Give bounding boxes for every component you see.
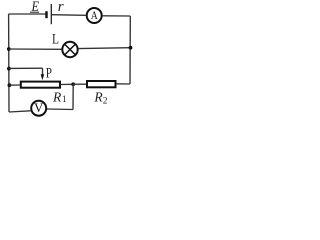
- slider arrowhead P: [41, 74, 45, 80]
- wire ammeter to top-right corner: [103, 15, 131, 17]
- wire right vertical: [129, 16, 131, 84]
- wire lamp branch left: [9, 48, 62, 50]
- label E underline: [30, 11, 39, 13]
- wire junction to R2: [73, 83, 87, 85]
- wire slider arrow shaft: [42, 68, 44, 75]
- voltmeter circle: [31, 101, 46, 116]
- wire to R1 left end: [9, 84, 20, 86]
- lamp cross stroke 1: [65, 44, 76, 55]
- lamp cross stroke 2: [65, 44, 76, 55]
- node junction left R1 branch: [7, 83, 11, 87]
- wire battery to ammeter: [51, 14, 86, 17]
- wire voltmeter to bottom-left corner: [9, 111, 31, 112]
- wire lamp to right wire: [78, 47, 130, 50]
- resistor R2 body: [87, 81, 116, 87]
- rheostat R1 body: [21, 82, 60, 88]
- svg-text:L: L: [52, 32, 59, 48]
- wire junction down to voltmeter branch: [72, 84, 74, 109]
- svg-text:V: V: [34, 101, 43, 115]
- battery cell: long thin positive plate: [50, 4, 52, 24]
- svg-text:R: R: [52, 89, 62, 104]
- battery cell: short thick negative plate: [45, 11, 47, 18]
- wire R1 right to junction: [60, 83, 73, 85]
- wire voltmeter branch horizontal right: [47, 108, 73, 111]
- wire left vertical: [8, 14, 10, 112]
- svg-text:1: 1: [62, 95, 67, 105]
- svg-text:2: 2: [103, 96, 108, 106]
- svg-text:E: E: [31, 0, 39, 15]
- wire R2 to bottom-right corner: [116, 83, 130, 85]
- svg-text:r: r: [58, 0, 64, 15]
- svg-text:P: P: [46, 65, 52, 81]
- svg-text:A: A: [91, 8, 98, 22]
- wire slider branch horizontal: [9, 67, 43, 69]
- node junction left slider branch: [7, 67, 11, 71]
- wire top from left corner to battery: [9, 13, 46, 15]
- lamp L circle: [62, 42, 77, 57]
- node junction right lamp branch: [129, 46, 133, 50]
- node junction left lamp branch: [7, 47, 11, 51]
- ammeter A circle: [87, 8, 102, 23]
- node junction R1 R2: [71, 82, 75, 86]
